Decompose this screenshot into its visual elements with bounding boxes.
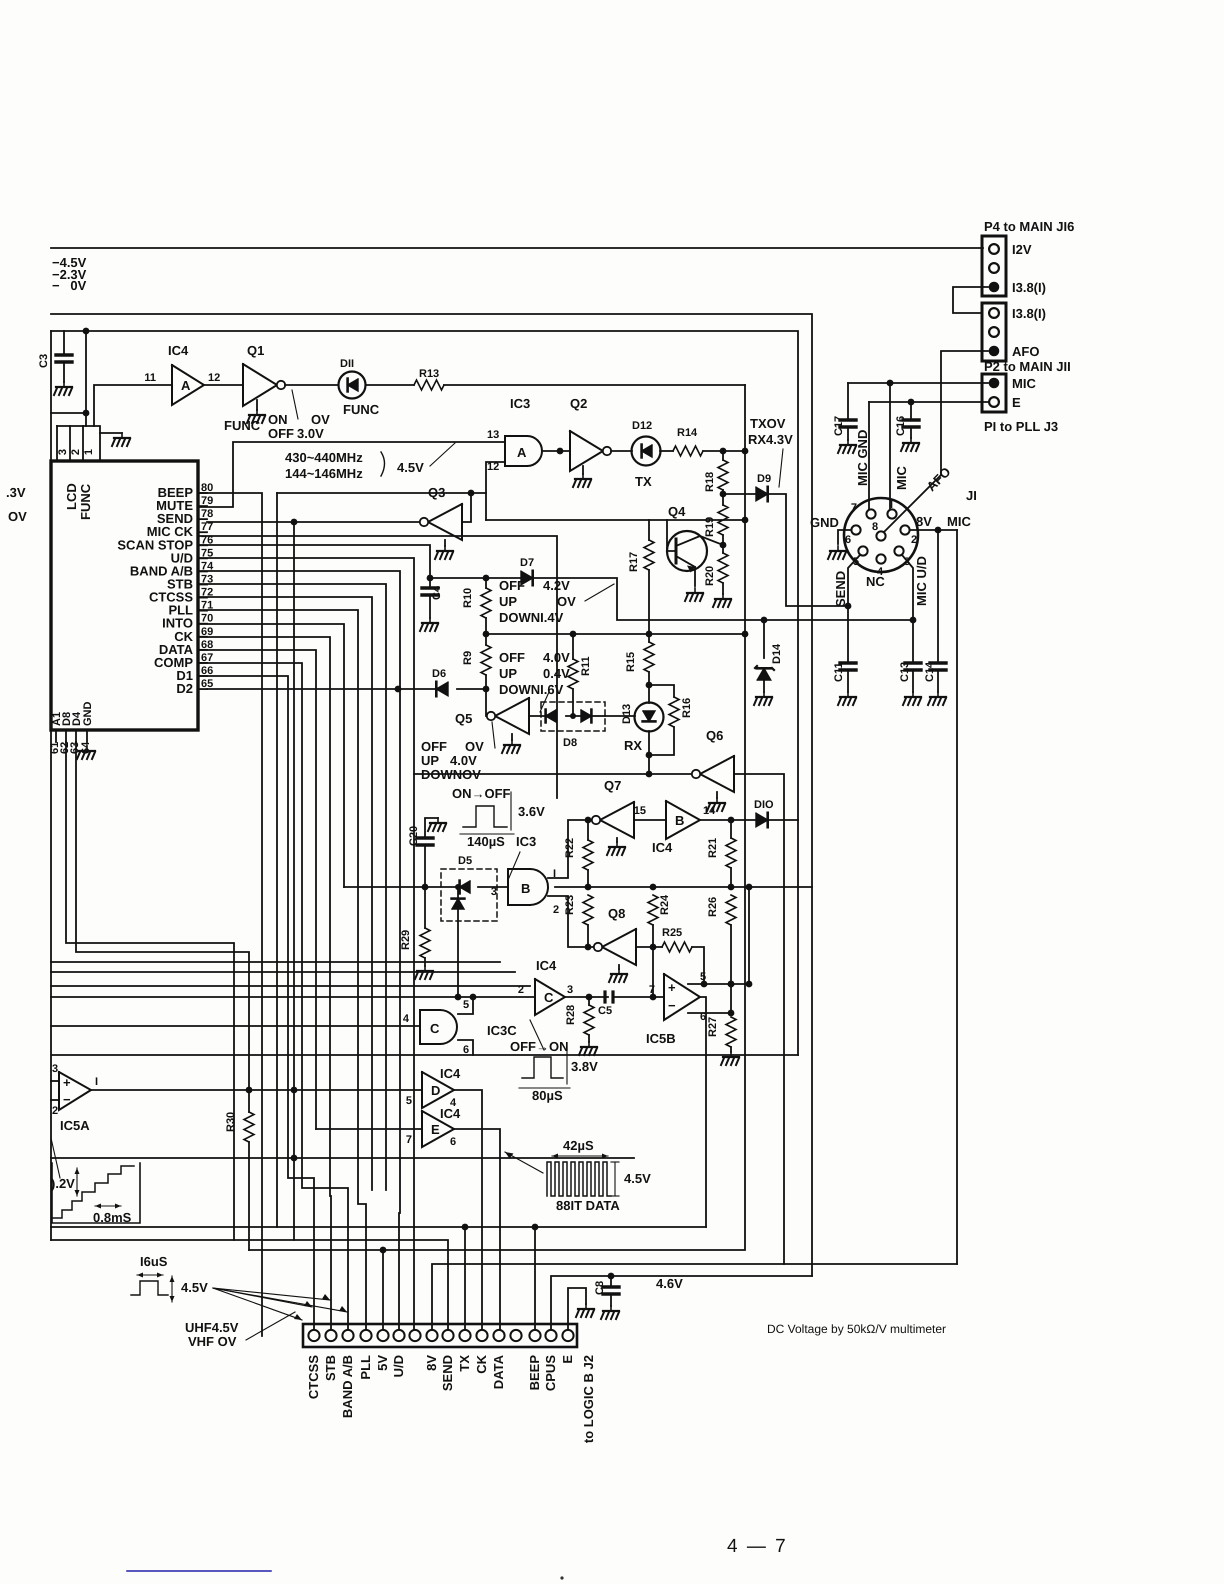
svg-text:7: 7 [406,1134,412,1146]
op-amp IC5B [646,974,706,1046]
svg-text:GND: GND [810,515,839,530]
wire left aux 986 [51,985,530,987]
wire D13 bottom [648,731,650,774]
svg-text:BEEP: BEEP [527,1355,542,1391]
wire IC4A input [94,385,172,426]
wire TX drop [464,1227,466,1330]
svg-text:OFF: OFF [499,578,525,593]
svg-text:IC3: IC3 [516,834,536,849]
wire STB route [198,584,386,1190]
gate IC3-B [491,868,559,916]
junction SEND descent [291,519,298,526]
wire inner box right lower [797,820,799,1055]
connector P4 [982,219,1074,296]
svg-text:E: E [1012,395,1021,410]
connector J1 [844,488,977,578]
svg-text:Q8: Q8 [608,906,625,921]
wire PLL route [198,610,366,1330]
svg-text:IC5B: IC5B [646,1031,676,1046]
wire D9 to SEND [768,494,848,606]
resistor R16 [669,697,693,727]
wire MIC CK route [198,536,557,798]
diode D11 FUNC LED [339,358,380,417]
junction D6 line [395,686,402,693]
svg-text:R13: R13 [419,368,439,380]
inverter Q5 [495,698,529,734]
junction pin5/704 [701,981,708,988]
wire Q7 to IC4B [634,819,666,821]
connector P2 MIC/E [982,359,1071,434]
ground R27 [721,1052,739,1065]
wire D5 input line [344,886,461,888]
wire D10 to box [768,819,798,821]
node FUNC ON/OFF text [224,412,330,441]
pin 72 CTCSS [149,587,213,605]
svg-text:4 — 7: 4 — 7 [727,1536,788,1557]
svg-text:88IT DATA: 88IT DATA [556,1198,620,1213]
wire Q7 line [548,820,584,878]
wire R16 bottom jog [649,727,674,755]
svg-text:OV: OV [8,509,27,524]
junction R24 top [650,884,657,891]
wire IC4C input line [51,996,535,998]
wire E line [869,401,988,403]
svg-text:R17: R17 [628,552,640,572]
pin 79 MUTE [156,495,213,513]
wire left edge [50,331,52,1240]
wire COMP route [198,663,348,1330]
buffer IC4-C [518,958,573,1015]
wire D8 to D13 [605,715,635,717]
svg-text:11: 11 [144,372,156,384]
wire pin12 net [277,493,486,520]
svg-text:D5: D5 [458,855,472,867]
svg-text:8V: 8V [424,1355,439,1371]
ground C17 [838,440,856,453]
junction R15/R16 [646,682,653,689]
wire D11 to R13 [366,384,414,386]
junction IC3C pin5 [470,994,477,1001]
wire LCD-FUNC box [57,426,100,461]
pin 75 U/D [171,547,214,565]
wire BAND A/B route [198,571,400,1330]
resistor R27 [707,1017,736,1052]
junction MIC/J1pin1 [887,380,894,387]
svg-text:CPUS: CPUS [543,1355,558,1391]
junction MICUD/C13 [910,617,917,624]
wire J1 pin5 send [848,555,860,663]
buffer IC4-B [634,801,716,855]
wire R13 right [444,384,745,386]
wire DATA route [198,650,316,1129]
junction pin5/731 [728,981,735,988]
svg-text:Q4: Q4 [668,504,686,519]
resistor R22 [564,820,593,887]
svg-text:B: B [675,813,684,828]
leader 4.2V [585,584,614,601]
diode D13 RX LED [621,685,664,753]
svg-text:R30: R30 [225,1112,237,1132]
junction C3 [83,328,90,335]
junction D14 top [761,617,768,624]
diode D5 [441,855,508,997]
junction FUNC [83,410,90,417]
capacitor C13 [899,662,921,692]
wire 8V line [432,1264,957,1330]
wire E jog [568,1288,586,1330]
wire CK route [198,637,331,1330]
ground R20 [713,583,731,607]
svg-text:MIC GND: MIC GND [855,430,870,486]
wire 5V drop [382,1250,384,1330]
leader Q5 [492,722,495,748]
svg-text:I3.8(I): I3.8(I) [1012,280,1046,295]
svg-text:8V: 8V [916,514,932,529]
junction R21/R26 [728,884,735,891]
svg-text:R23: R23 [564,895,576,915]
wire outer box top [51,314,812,1276]
svg-text:D2: D2 [176,681,193,696]
svg-text:2: 2 [911,534,917,546]
svg-text:I2V: I2V [1012,242,1032,257]
svg-text:D14: D14 [771,643,783,664]
svg-text:R10: R10 [462,588,474,608]
pin 69 CK [174,626,213,644]
node TXOV RX4.3V [748,416,793,447]
ground FUNC box [100,433,130,446]
junction E/C16 [908,399,915,406]
svg-text:D12: D12 [632,420,652,432]
capacitor C3 [38,331,72,382]
wire IC4B out [700,819,756,821]
node OFF 4.2V text [499,578,576,625]
junction gate out [557,448,564,455]
leader RX4.3V [779,449,783,487]
svg-text:OFF: OFF [268,426,294,441]
svg-text:R20: R20 [704,566,716,586]
leader DOWN1.6V [540,692,549,712]
svg-text:).2V: ).2V [51,1176,75,1191]
diode D10 [754,799,774,827]
svg-text:FUNC: FUNC [78,483,93,520]
wire IC5B pin6 [688,1012,731,1014]
ground Q3 [435,540,453,559]
junction R21 top [728,817,735,824]
resistor R11 [568,634,592,716]
wire Q8 out [636,946,662,948]
IC microprocessor outline [51,461,198,730]
diode D12 TX LED [632,420,661,489]
capacitor C5 [598,992,664,1017]
resistor R19 [704,494,728,537]
svg-text:430~440MHz: 430~440MHz [285,450,363,465]
junction D5 bottom [455,994,462,1001]
node staircase waveform [51,1163,140,1225]
svg-text:3.0V: 3.0V [297,426,324,441]
resistor R26 [707,895,736,1013]
svg-text:RX4.3V: RX4.3V [748,432,793,447]
ground Q6 [707,792,725,811]
node OFF 4.0V text [499,650,570,697]
svg-text:MIC: MIC [947,514,971,529]
ground C3 [54,382,72,395]
svg-text:GND: GND [82,702,94,727]
svg-text:140µS: 140µS [467,834,505,849]
resistor R23 [564,895,593,947]
junction R26 bottom [728,981,735,988]
svg-text:TX: TX [635,474,652,489]
wire R14 out [703,450,746,452]
wire divider mid rail [486,633,745,635]
svg-text:R25: R25 [662,927,682,939]
buffer IC4-D [406,1066,461,1109]
wire Q2 to D12 [611,450,632,452]
pin 77 MIC CK [147,521,213,539]
connector J2 [303,1324,577,1347]
svg-text:2: 2 [52,1105,58,1117]
svg-text:C17: C17 [833,416,845,436]
leader 4.5V [430,443,455,466]
wire J1 pin3 micud [902,555,913,663]
svg-text:MIC: MIC [894,466,909,490]
wire 749 riser [748,887,750,984]
svg-text:R16: R16 [681,698,693,718]
svg-text:4.5V: 4.5V [397,460,424,475]
node 42uS waveform 881T DATA [547,1138,651,1213]
leader arrows 4.5V [213,1288,347,1320]
buffer IC4-E [406,1106,461,1148]
resistor R20 [704,553,728,586]
pin 76 SCAN STOP [117,534,213,552]
svg-text:A: A [517,445,527,460]
resistor R28 [565,997,594,1042]
junction C8 top [608,1273,615,1280]
svg-text:4.0V: 4.0V [450,753,477,768]
junction R14/R18 [720,448,727,455]
diode D6 [432,668,448,696]
svg-text:4.5V: 4.5V [624,1171,651,1186]
wire pin12 lead [486,462,505,493]
capacitor C14 [924,530,946,692]
junction R15 top [646,631,653,638]
svg-text:DC Voltage by 50kΩ/V multimete: DC Voltage by 50kΩ/V multimeter [767,1322,946,1336]
svg-text:R21: R21 [707,838,719,858]
resistor R14 [673,427,703,456]
ground C20 [428,818,446,831]
svg-text:3.8V: 3.8V [571,1059,598,1074]
junction C20/line [422,884,429,891]
wire U/D route [198,558,414,1330]
svg-text:R29: R29 [400,930,412,950]
capacitor C16 [895,402,919,438]
wire D6 to R9 [457,688,486,690]
svg-text:6: 6 [845,534,851,546]
svg-text:C4: C4 [431,585,443,600]
svg-text:SEND: SEND [440,1355,455,1391]
wire Q3 net descent [276,493,278,1227]
svg-text:C3: C3 [38,354,50,368]
ground R28 [579,1042,597,1055]
svg-text:P4 to MAIN JI6: P4 to MAIN JI6 [984,219,1074,234]
svg-text:C11: C11 [833,662,845,682]
node OFF-ON waveform [510,1039,598,1103]
wire D1 route [198,676,314,1330]
decoration stray dot [560,1576,563,1579]
svg-text:14: 14 [703,805,716,817]
svg-text:IC4: IC4 [652,840,673,855]
svg-text:DIO: DIO [754,799,774,811]
capacitor C20 [408,818,438,887]
svg-text:TXOV: TXOV [750,416,786,431]
wire IC4D out [454,1090,482,1330]
wire IC3C pin6 lead [458,1040,473,1055]
decoration blue underline [127,1570,271,1572]
wire IC3C pin5 lead [458,997,473,1014]
wire IC3C input [51,1025,420,1027]
svg-text:3: 3 [491,886,497,898]
svg-text:C8: C8 [594,1281,606,1295]
junction R22/R23 [585,884,592,891]
svg-text:12: 12 [208,372,220,384]
inverter Q2 [570,431,611,471]
svg-text:.3V: .3V [6,485,26,500]
junction 294/1090 [291,1087,298,1094]
svg-text:B: B [521,881,530,896]
svg-text:C: C [544,990,554,1005]
diode D8 pair [541,702,605,749]
wire R9 to Q5 [486,675,491,716]
inverter Q6 [700,756,734,792]
inverter Q1 [243,364,285,406]
capacitor C17 [833,383,856,440]
svg-text:U/D: U/D [391,1355,406,1377]
junction send/1158 [291,1155,298,1162]
svg-text:IC3: IC3 [510,396,530,411]
svg-text:BAND A/B: BAND A/B [340,1355,355,1418]
svg-text:D9: D9 [757,473,771,485]
svg-text:I: I [890,499,893,511]
ground Q5 [502,734,520,753]
wire MIC long down [956,530,958,1264]
capacitor C4 [422,585,443,618]
junction SEND/C11 [845,603,852,610]
junction R23/Q8 [585,944,592,951]
resistor R13 [414,368,444,390]
pin 73 STB [167,573,213,591]
svg-text:R27: R27 [707,1017,719,1037]
svg-text:IC5A: IC5A [60,1118,90,1133]
inverter Q3 [428,504,462,540]
svg-text:+: + [668,980,676,995]
wire FUNC riser [85,331,87,426]
ground pin64 [77,746,95,759]
svg-text:IC4: IC4 [536,958,557,973]
wire gate out [542,450,570,452]
ground Q1 [247,400,265,423]
svg-text:7: 7 [851,502,857,514]
svg-text:3: 3 [57,449,69,455]
connector P2/P3 block [982,303,1046,361]
wire MUTE riser to gate [198,442,505,507]
svg-text:OFF: OFF [421,739,447,754]
wire pin7 riser [868,402,870,510]
wire R16 jog top [649,685,674,697]
junction 5V pin [380,1247,387,1254]
svg-text:DATA: DATA [491,1354,506,1389]
svg-text:3: 3 [52,1063,58,1075]
wire left aux 962 [51,961,500,963]
svg-text:OV: OV [465,739,484,754]
svg-text:4.6V: 4.6V [656,1276,683,1291]
resistor R15 [625,634,654,685]
resistor R29 [400,887,430,966]
ground C14 [928,692,946,705]
svg-text:2: 2 [553,904,559,916]
svg-text:C14: C14 [924,661,936,682]
resistor R25 [662,927,692,952]
buffer IC4-A [144,365,220,405]
wire R24 node down [652,947,654,997]
resistor R17 [628,520,654,634]
svg-text:C13: C13 [899,662,911,682]
svg-text:DOWNI.4V: DOWNI.4V [499,610,564,625]
leader 881T [505,1152,543,1173]
svg-text:NC: NC [866,574,885,589]
pin 65 D2 [176,678,213,696]
node 16uS waveform [131,1254,208,1302]
wire CPUS 4.6V line [551,1276,812,1330]
wire IC5B out [700,997,706,1227]
wire divider top [430,577,521,579]
svg-text:UP: UP [499,666,517,681]
pin 62 D8 [59,712,73,754]
junction R18/R19 [720,491,727,498]
wire Q4 base line [486,519,745,521]
wire bottom pin62 route [66,742,234,1240]
node -4.5V/-2.3V/0V labels [52,255,87,293]
svg-text:Q1: Q1 [247,343,264,358]
svg-text:FUNC: FUNC [343,402,380,417]
svg-text:I6uS: I6uS [140,1254,168,1269]
svg-text:5: 5 [700,971,706,983]
svg-text:IC3C: IC3C [487,1023,517,1038]
pin 74 BAND A/B [130,560,214,578]
wire BEEP drop [534,1227,536,1330]
wire IC4E input [316,1128,422,1130]
svg-text:R24: R24 [659,894,671,915]
wire Q3 to pin12 net [462,493,471,522]
svg-text:DII: DII [340,358,354,370]
wire R19 to R20 [722,535,724,553]
wire Q5 to D8 [529,715,546,717]
svg-text:IC4: IC4 [168,343,189,358]
svg-text:Q6: Q6 [706,728,723,743]
wire R10 to R9 [485,618,487,645]
svg-text:R22: R22 [564,838,576,858]
svg-text:I: I [553,868,556,880]
wire SEND descent [293,522,295,1240]
junction Q6 line [646,771,653,778]
svg-text:0.8mS: 0.8mS [93,1210,132,1225]
svg-text:R15: R15 [625,652,637,672]
pin 78 SEND [157,508,213,526]
ground C8 [601,1306,619,1319]
pin 64 GND [80,702,94,755]
capacitor C11 [833,662,856,692]
svg-text:FUNC: FUNC [224,418,261,433]
svg-text:13: 13 [487,429,499,441]
ground Q4 [685,588,703,601]
